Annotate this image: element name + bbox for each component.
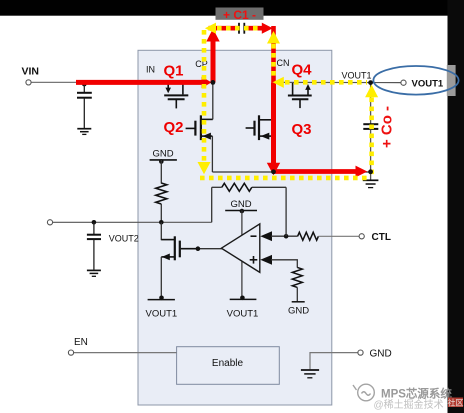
wire cap Cout2 top (93, 222, 95, 234)
yellow dashes left drop (202, 30, 207, 161)
wire Co top (370, 83, 372, 124)
wire M1 source down (160, 257, 162, 298)
node rail-Co junction dot (368, 169, 373, 174)
yellow dashes Co riser (369, 98, 374, 177)
resistor R (bias divider) (156, 183, 167, 204)
node divider junction (159, 220, 164, 225)
wire Co bottom (370, 130, 372, 180)
IC main block U1 (138, 50, 332, 405)
svg-text:IN: IN (146, 65, 155, 75)
terminal GND (358, 350, 363, 355)
wire node to pass FET drain (160, 222, 162, 240)
wire R to node (160, 204, 162, 222)
yellow dashes bottom segment (200, 176, 369, 181)
svg-text:Q4: Q4 (292, 62, 313, 79)
svg-text:Q3: Q3 (292, 121, 312, 138)
svg-text:+ Co -: + Co - (379, 106, 396, 148)
svg-text:VIN: VIN (22, 66, 40, 78)
red arrow right at CN corner (262, 23, 273, 34)
svg-text:EN: EN (74, 337, 88, 348)
ground (VIN cap) (77, 129, 91, 135)
resistor R(CTL) (298, 232, 319, 240)
Enable block (177, 347, 280, 385)
svg-text:Q1: Q1 (164, 63, 184, 80)
terminal VOUT2 (47, 220, 52, 225)
terminal VIN (26, 80, 31, 85)
resistor R(plus) (292, 267, 302, 287)
yellow arrow left into CN node (273, 77, 284, 88)
capacitor C1 plates (239, 23, 244, 34)
node VIN-cap junction (82, 82, 87, 87)
VOUT1 callout ellipse (373, 66, 458, 95)
wire R(plus) to gnd (296, 287, 298, 301)
svg-text:@稀土掘金技术: @稀土掘金技术 (374, 398, 444, 411)
svg-text:VOUT1: VOUT1 (412, 78, 444, 89)
wire feedback right lead (252, 186, 286, 188)
wire feedback left lead (212, 186, 222, 188)
transistor Q3 (246, 115, 274, 140)
VOUT1 rail (op-amp bottom) (230, 298, 257, 300)
node M1 source rail dot (159, 296, 164, 301)
transistor Q1 (164, 82, 188, 108)
right video bar (448, 0, 464, 413)
wire cap Cin bottom (83, 99, 85, 129)
wire output net to VOUT1 pin (274, 81, 402, 83)
red path CN riser upper (271, 26, 276, 82)
node op-amp vout1 dot (240, 296, 245, 301)
red charge path top segment (209, 26, 264, 31)
svg-text:GND: GND (370, 349, 392, 360)
svg-text:VOUT1: VOUT1 (227, 309, 259, 320)
ground (VOUT2 cap) (87, 270, 101, 276)
yellow arrow up at CN (267, 31, 280, 44)
red arrow into CP node (202, 77, 212, 89)
node VOUT2-cap junction (92, 220, 97, 225)
capacitor Cin (77, 93, 92, 98)
svg-text:GND: GND (288, 306, 309, 317)
terminal CTL (359, 234, 364, 239)
wire R(CTL) to CTL pin (318, 235, 359, 237)
svg-text:GND: GND (152, 149, 173, 160)
node VOUT1-Co junction dot (368, 80, 373, 85)
VOUT1 rail (left) (148, 299, 175, 301)
svg-text:MPS芯源系统: MPS芯源系统 (381, 387, 452, 401)
node op-amp output dot (196, 246, 201, 251)
red charge path CP riser (211, 41, 216, 83)
yellow arrow up at Co (365, 85, 378, 98)
watermark logo (353, 384, 374, 401)
watermark badge (448, 398, 463, 408)
op-amp U2 (221, 224, 259, 273)
arrow into non-inverting input (260, 255, 272, 265)
red path bottom segment (274, 169, 357, 174)
node rail-CN junction dot (271, 169, 276, 174)
GND rail (left inner) (150, 159, 177, 161)
transistor M1 (pass FET) (161, 236, 198, 260)
wire CP node to Q2 drain (212, 82, 214, 119)
svg-text:+ C1 -: + C1 - (223, 8, 256, 22)
wire bottom rail (212, 171, 370, 173)
terminal EN (68, 350, 73, 355)
svg-text:Q2: Q2 (164, 119, 184, 136)
GND rail (plus input) (292, 301, 305, 303)
wire CN vertical (under red) (273, 82, 275, 172)
resistor R(fb) (222, 183, 252, 191)
red arrow up at CP (206, 29, 219, 42)
wire VOUT2 net horizontal (53, 221, 212, 223)
transistor Q4 (288, 82, 312, 108)
red arrow down at CN bottom (267, 163, 280, 175)
capacitor Co (363, 124, 378, 129)
wire feedback up (285, 187, 287, 236)
red arrow into Co ground (356, 166, 368, 178)
yellow dashes top segment (217, 26, 261, 31)
yellow dashes output segment (285, 80, 367, 85)
C1 label background (216, 8, 264, 20)
scrollbar thumb (447, 65, 456, 96)
terminal VOUT1 (401, 80, 406, 85)
transistor Q2 (186, 115, 213, 140)
yellow arrow down left drop (198, 162, 211, 174)
node op-amp gnd dot (240, 209, 245, 214)
node CP junction dot (211, 80, 216, 85)
op-amp minus sign (251, 235, 257, 237)
wire inverting input (271, 235, 298, 237)
wire non-inverting input (271, 260, 297, 268)
svg-text:CTL: CTL (372, 232, 391, 243)
wire op-amp power vertical (241, 211, 243, 298)
capacitor Cout2 (87, 235, 101, 239)
wire feedback down to divider (211, 187, 213, 222)
top video bar (0, 0, 464, 16)
svg-text:CN: CN (277, 58, 290, 68)
gap for C1 plates (238, 22, 245, 35)
wire GND pin (310, 353, 358, 370)
wire VIN lead (31, 81, 80, 83)
svg-text:Enable: Enable (212, 358, 244, 369)
wire cap Cin top (83, 82, 85, 92)
ground (Co) (363, 180, 379, 187)
svg-text:VOUT2: VOUT2 (109, 234, 139, 244)
svg-text:GND: GND (230, 199, 251, 210)
wire GND to R1 (160, 160, 162, 184)
wire op-amp output (198, 248, 223, 250)
svg-text:社区: 社区 (448, 398, 464, 408)
svg-text:VOUT1: VOUT1 (146, 309, 178, 320)
ground (GND pin) (301, 370, 319, 378)
GND rail (op-amp top) (225, 210, 257, 212)
wire EN (74, 352, 177, 354)
node inverting input dot (284, 234, 289, 239)
wire cap Cout2 bottom (93, 240, 95, 270)
yellow dashes CN riser (271, 44, 276, 80)
op-amp plus sign (250, 256, 258, 264)
red discharge path CN drop (271, 82, 276, 163)
red charge path VIN segment (76, 80, 203, 85)
wire VIN to CP (under red) (80, 81, 213, 83)
svg-text:VOUT1: VOUT1 (342, 71, 372, 81)
yellow arrow left at top (205, 23, 216, 34)
arrow into inverting input (260, 231, 272, 241)
node GND rail dot (159, 159, 164, 164)
wire Q2 source to rail (211, 136, 213, 172)
